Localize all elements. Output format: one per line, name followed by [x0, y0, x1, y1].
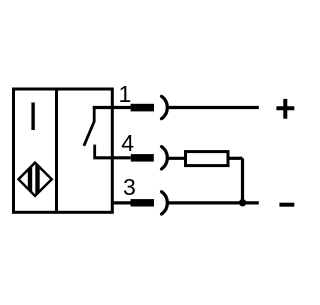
connector pin bar 4: [131, 154, 154, 162]
minus terminal: [279, 203, 294, 207]
wire 1 (inner + outer segment): [93, 106, 131, 109]
svg-text:1: 1: [119, 81, 132, 107]
top terminal stub: [93, 106, 96, 121]
plus terminal: [276, 99, 294, 119]
junction dot: [239, 199, 246, 206]
connector socket arc 4: [162, 147, 168, 169]
load resistor: [186, 152, 229, 166]
sensor body divider: [55, 89, 58, 212]
switch contact (NO): [84, 106, 95, 158]
connector socket arc 3: [162, 192, 168, 214]
connector pin bar 1: [131, 104, 154, 112]
connector pin bar 3: [131, 199, 155, 206]
lower terminal stub: [93, 145, 96, 158]
wire 3 (outer segment): [112, 201, 131, 204]
wire 4 (inner bracket + outer segment): [93, 156, 131, 159]
blade diagonal: [84, 121, 95, 146]
inductive sensor symbol (diamond): [19, 162, 52, 197]
wire from load: [230, 157, 243, 160]
wire down to minus rail: [241, 158, 244, 203]
wire 3 to minus: [167, 201, 259, 204]
svg-text:3: 3: [123, 174, 136, 200]
svg-text:4: 4: [121, 130, 134, 156]
sensor body outline: [14, 89, 113, 212]
wire 4 to load: [167, 157, 185, 160]
sensing face mark: [31, 103, 34, 131]
connector socket arc 1: [162, 96, 168, 118]
wire 1 to plus: [167, 106, 259, 109]
